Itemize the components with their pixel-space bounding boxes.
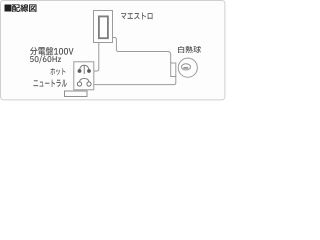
lamp socket (bulb holder) — [171, 63, 176, 77]
wire: hot terminal to switch left pin — [91, 43, 99, 71]
neutral junction arch — [80, 79, 90, 82]
lamp LA1 base contact dash — [183, 67, 188, 69]
distribution box 分電盤 outline — [74, 62, 94, 90]
lamp LA1 filament base (inner ellipse) — [182, 64, 191, 70]
label ニュートラル — [33, 79, 66, 87]
label ホット — [51, 68, 66, 75]
label マエストロ — [121, 13, 152, 20]
label 白熱球 — [178, 46, 201, 53]
hot junction arch — [80, 65, 90, 71]
hot junction stem — [83, 65, 85, 74]
switch S1 rocker (inner rect) — [99, 16, 108, 38]
neutral terminal circle left — [77, 82, 81, 86]
hot terminal dot right — [87, 69, 91, 73]
wire: switch right terminal to lamp socket — [113, 38, 171, 64]
neutral terminal circle right — [87, 82, 91, 86]
lamp LA1 bulb glass (白熱球) — [178, 58, 197, 77]
label 分電盤100V — [30, 47, 73, 55]
label 50/60Hz — [30, 56, 61, 63]
title 配線図 heading square — [5, 5, 12, 12]
wire: lamp socket back to neutral terminal — [91, 77, 176, 85]
switch S1 マエストロ outer body — [94, 11, 113, 43]
junction box below (cropped) — [65, 91, 88, 97]
title 配線図 text — [12, 4, 37, 12]
hot terminal dot left — [78, 69, 82, 73]
